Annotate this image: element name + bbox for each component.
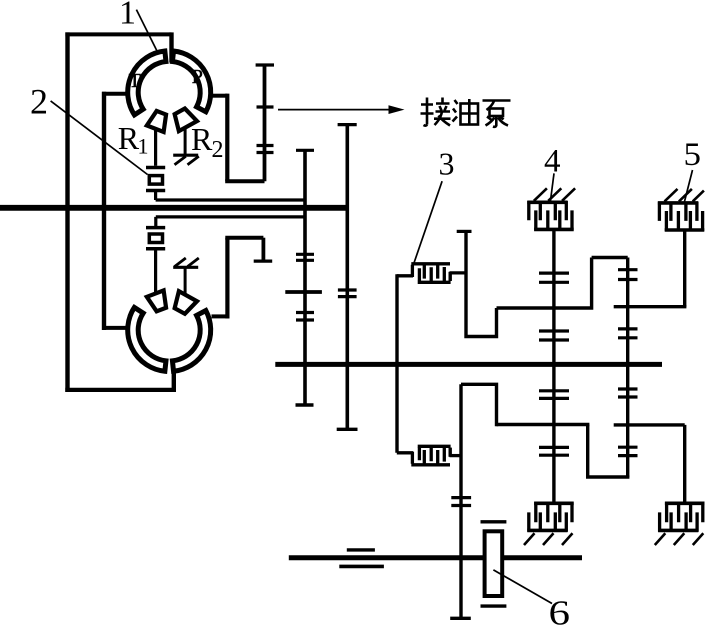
pump shell link lower (212, 314, 228, 318)
turbine hub stub lower (102, 326, 127, 330)
x305 wide gear tick (285, 290, 322, 294)
gear 6 wheel (485, 531, 503, 596)
x347 gear double tick (338, 290, 357, 297)
stator R2 ground link upper (184, 128, 187, 155)
output shaft spline marks (347, 548, 375, 551)
brake 5 ground hatch (665, 189, 704, 202)
R2' ground line lower (173, 266, 198, 269)
stator wedge R2 (upper) (175, 108, 197, 131)
sun gear shaft (x=305) (303, 150, 307, 405)
brake 5 drum link (614, 305, 687, 308)
clutch 3 right stub (450, 271, 467, 274)
svg-text:1: 1 (138, 134, 149, 159)
lower pump stub cap (254, 260, 273, 263)
stator R2' ground link lower (184, 268, 187, 294)
char 接 (424, 98, 428, 126)
housing frame left vertical (65, 32, 69, 392)
svg-text:2: 2 (212, 137, 224, 163)
gear 6 spline mark upper (481, 520, 507, 523)
lower drum horizontal link (497, 423, 590, 426)
frame connector into lower converter gap (172, 370, 176, 392)
x305 gear double tick upper (296, 254, 314, 260)
bottom brake right (grounded multi-disc) (658, 502, 704, 532)
ring drum shaft (x=628) (626, 258, 629, 478)
clutch 3' left stub (397, 451, 413, 454)
char 油 (453, 100, 458, 122)
x628 bottom step link (588, 425, 630, 479)
leader 1 (136, 10, 158, 54)
leader 5 (685, 170, 693, 202)
clutch drum vertical (x=397) (395, 274, 398, 453)
x305 top cap (296, 149, 314, 152)
svg-text:6: 6 (549, 594, 571, 625)
turbine output housing vertical (x=104) (102, 92, 106, 330)
clutch 3' right stub (450, 454, 462, 457)
oil pump shaft gear tick (257, 105, 274, 108)
gear 6 spline mark lower (481, 604, 507, 607)
torque converter pump P (upper) (172, 51, 210, 112)
clutch 3' (lower, mirrored) (411, 446, 450, 465)
x347 top cap (338, 123, 357, 126)
torque converter turbine T (upper) (128, 51, 166, 115)
output shaft (bottom, y=558) (289, 555, 582, 560)
svg-text:4: 4 (544, 143, 561, 179)
svg-text:5: 5 (684, 137, 702, 173)
x305 gear double tick lower (296, 313, 314, 321)
arrow to oil pump (278, 109, 392, 111)
stator wedge R1 (upper) (147, 111, 166, 132)
brake 4 ground hatch (534, 188, 575, 201)
frame connector into upper converter gap (pump drive) (169, 32, 173, 62)
stator R1' support line lower (154, 250, 157, 293)
clutch output shaft x=466 with step link to ring drum (464, 231, 627, 338)
rear brake shaft right (x=685) (683, 425, 686, 503)
svg-text:P: P (192, 66, 203, 88)
bottom brake left ground hatch (524, 533, 573, 545)
clutch 3 (upper, multi-disc) (411, 264, 450, 283)
one-way clutch 2' body (149, 234, 162, 243)
clutch 3 left stub from drum x=397 (397, 274, 413, 277)
lower clutch output step (461, 384, 498, 618)
brake 4 shaft (x=554) (552, 231, 555, 503)
housing frame top bar (65, 32, 171, 36)
x347 bottom cap (337, 428, 358, 431)
svg-text:3: 3 (439, 145, 455, 181)
svg-text:R: R (191, 121, 213, 157)
one-way clutch 2 body (149, 176, 162, 185)
brake 4 (grounded multi-disc) (527, 201, 573, 231)
x554 gear ticks (539, 273, 569, 282)
one-way clutch 2 upper cap (146, 166, 165, 170)
x466 shaft cap (457, 230, 472, 233)
svg-text:2: 2 (30, 82, 48, 122)
R1 output link to sun shaft (156, 192, 305, 200)
brake 5 (grounded multi-disc) (658, 202, 704, 232)
char 泵 (483, 101, 511, 111)
lower R1' link line (156, 217, 305, 227)
svg-text:T: T (129, 70, 141, 92)
lower torque converter (mirrored) (128, 290, 211, 371)
x461 bottom cap (450, 617, 471, 620)
turbine hub stub upper (102, 92, 127, 96)
rear brake drum link (y=425) (614, 423, 685, 426)
text 接油泵 (connect to oil pump) hand-drawn (421, 98, 451, 126)
stator R1 support line upper (154, 129, 157, 166)
brake 5 shaft (x=685) (683, 231, 686, 307)
oil pump shaft end cap (256, 63, 274, 66)
R2 ground hatch upper (175, 156, 199, 165)
svg-text:R: R (118, 120, 140, 156)
bottom brake right ground hatch (655, 533, 704, 545)
x305 bottom cap (296, 403, 314, 406)
leader 3 (414, 181, 442, 263)
lower pump stub shaft (261, 238, 265, 260)
bottom brake left (grounded multi-disc) (527, 502, 573, 532)
one-way clutch 2 lower cap (146, 189, 165, 193)
leader 2 (51, 101, 148, 175)
leader 4 (551, 173, 555, 200)
intermediate shaft (countershaft, y=364) (275, 362, 662, 367)
pump shell link upper (to oil pump drive) (212, 94, 228, 98)
oil pump drive shaft (263, 65, 267, 181)
leader 6 (493, 570, 552, 604)
oil pump shaft gear double tick (257, 146, 274, 153)
x628 gear ticks (618, 270, 638, 280)
one-way clutch 2' upper cap (146, 226, 165, 230)
R2 ground line upper (173, 154, 198, 157)
R2' ground hatch lower (175, 258, 199, 267)
svg-text:1: 1 (119, 0, 136, 32)
one-way clutch 2' lower cap (146, 247, 165, 251)
input shaft (engine side, y=208) (0, 205, 347, 211)
primary vertical shaft (x=347) (345, 125, 349, 430)
housing frame bottom bar (65, 388, 174, 392)
x461 gear ticks (mesh with gear 6) (451, 498, 471, 506)
